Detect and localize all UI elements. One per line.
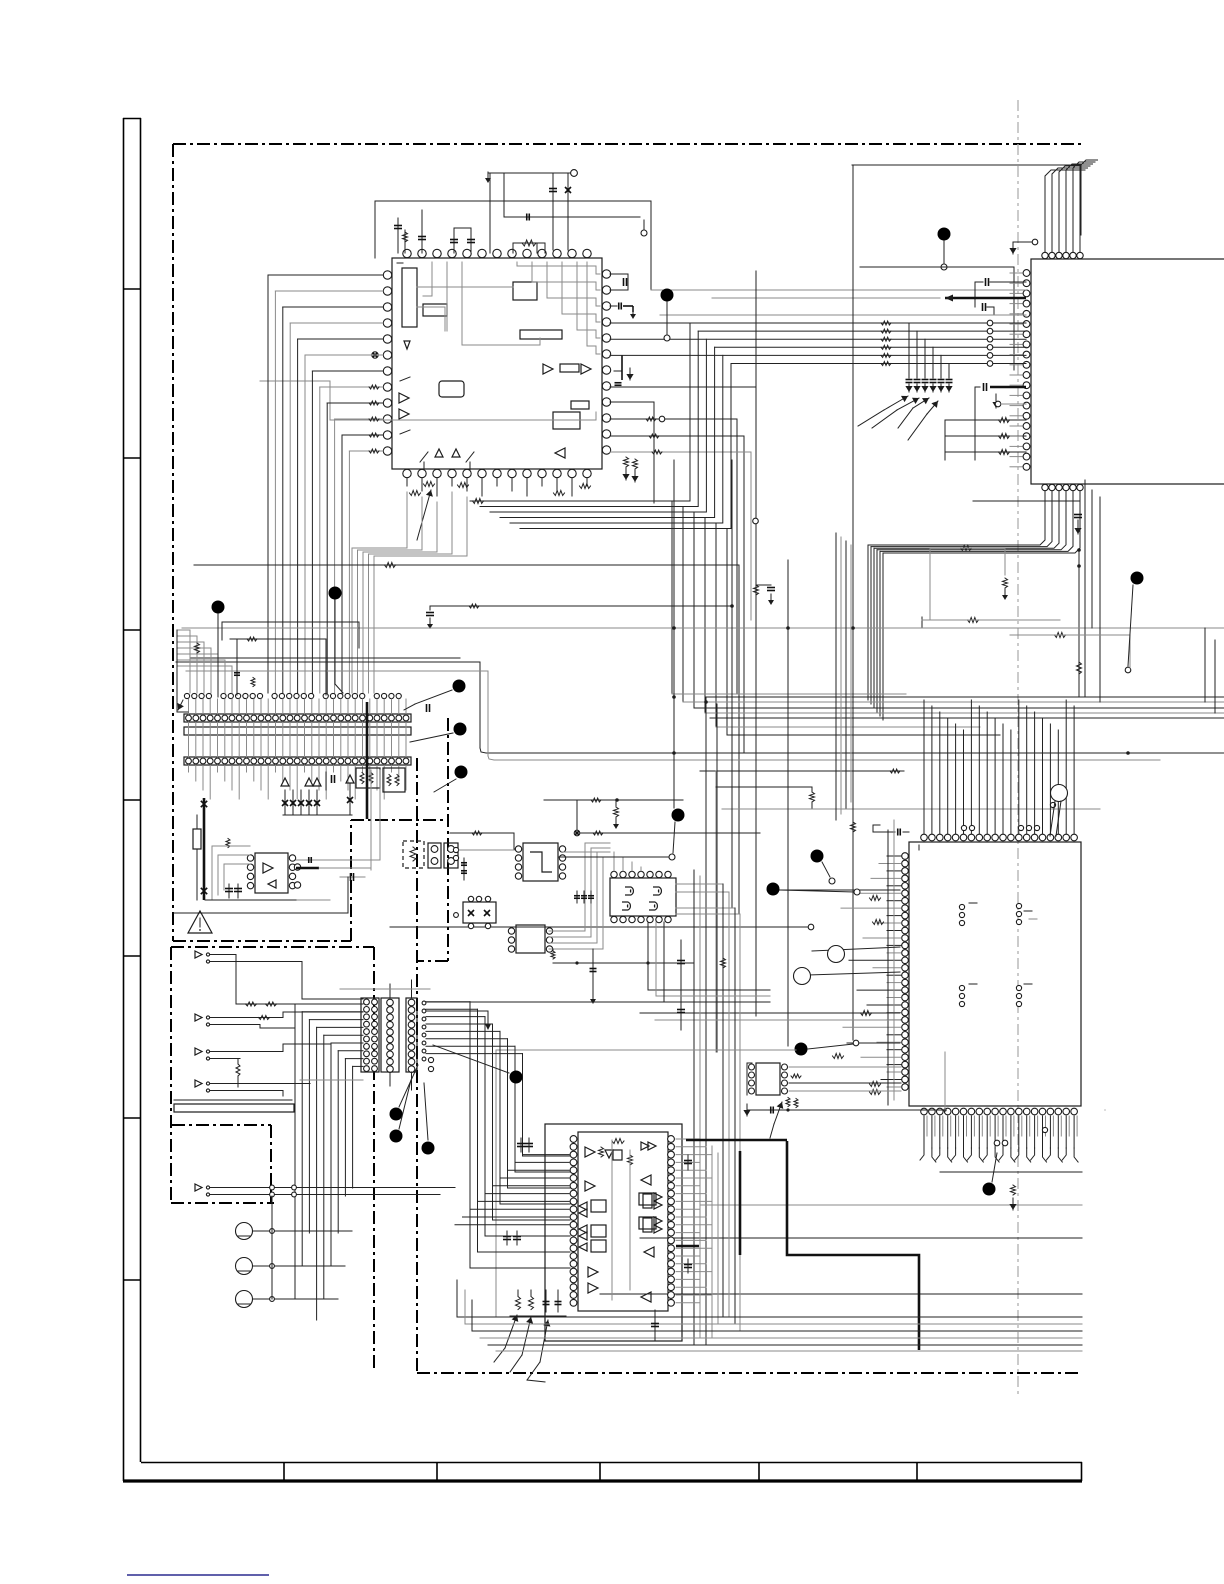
leader arrows to caps — [884, 396, 908, 410]
input 2 wires — [216, 1017, 283, 1019]
capacitor on x593 — [590, 968, 597, 970]
wire hor 1080 — [300, 1079, 363, 1081]
U3 left pins — [902, 853, 909, 860]
U5 surrounding wires — [212, 845, 250, 847]
revision link underline — [127, 1574, 269, 1576]
wire to circle 673-857 — [558, 856, 669, 858]
capacitor C110 — [623, 278, 625, 286]
wires U1 top components — [488, 172, 572, 174]
CN3 arrow wire y1011 — [426, 1010, 488, 1012]
black dot callout 1 — [938, 228, 951, 241]
U1 left pins — [383, 271, 391, 279]
DSP U3 IC body — [909, 842, 1081, 1106]
U3 top pins — [921, 834, 928, 841]
connector CN2 pins — [186, 758, 192, 764]
connector CN1 body — [184, 714, 411, 722]
capacitor C201 — [1074, 514, 1082, 516]
wire y800 with resistors — [544, 799, 683, 801]
white circle callout A — [1051, 785, 1068, 802]
black dot callout 15b — [422, 1142, 435, 1155]
block boundary dash-dot frame — [173, 143, 1082, 145]
black dot callout 8 — [672, 809, 685, 822]
bold cap wire U2 — [990, 386, 1026, 389]
capacitor C310 — [680, 940, 682, 1030]
resistors under U1 — [424, 482, 435, 487]
U6b left pins — [508, 928, 514, 934]
black dot callout 11 — [795, 1043, 808, 1056]
U1 bottom elbow bus to right — [470, 500, 690, 502]
dashed box component X1 — [403, 841, 424, 868]
IC U6b body — [516, 925, 545, 953]
wire horizontals left — [176, 630, 178, 712]
U10 wires — [746, 1063, 748, 1095]
connector small J11 — [444, 843, 458, 868]
op-amp U5 body — [255, 853, 288, 893]
bold wire into U10 area — [686, 1139, 787, 1142]
U2 bottom pins — [1042, 484, 1048, 490]
CN3 long wire y1003 — [426, 1001, 770, 1003]
U2 right pin stubs short — [1010, 272, 1022, 274]
bold routing wire — [787, 1141, 919, 1350]
wire to dot 11 — [496, 1049, 796, 1051]
U5 right pins — [289, 855, 295, 861]
connector mid body — [184, 727, 411, 735]
resistor pack right of diodes — [356, 768, 380, 788]
U10 arrow annotation — [774, 1102, 782, 1124]
capacitor C103 — [453, 228, 455, 253]
phono jack J1 — [236, 1223, 253, 1240]
input 5 wires y1188 — [216, 1187, 455, 1189]
black dot callout 16 — [983, 1183, 996, 1196]
resistor R21 R22 — [236, 1003, 363, 1005]
audio processor U4 outer boundary — [545, 1124, 682, 1341]
U7 top pins — [611, 871, 617, 877]
U7 bottom drop verticals — [647, 922, 649, 990]
black dot callout 14 — [390, 1108, 403, 1121]
ground arrow near U1 right — [632, 306, 634, 312]
U6 left pins — [515, 846, 521, 852]
bold wire 2 — [739, 1151, 742, 1255]
microcontroller U2 IC body — [1031, 259, 1224, 484]
feeder left elbows — [177, 629, 190, 631]
white circle callout B — [828, 946, 845, 963]
dual header CN3 left body — [361, 998, 379, 1072]
connector CN2 body — [184, 757, 411, 765]
resistor bus with bypass caps — [610, 322, 1026, 324]
U4 internal ops — [585, 1147, 595, 1157]
capacitor C202 — [974, 282, 976, 307]
black dot callout 4 — [329, 587, 342, 600]
capacitors row mid — [576, 891, 578, 903]
capacitors near U4 top-left — [517, 1143, 525, 1145]
IC U6 body — [523, 843, 558, 881]
phono jack J2 — [236, 1258, 253, 1275]
U6 right pins — [559, 846, 565, 852]
wire y622 — [222, 621, 359, 623]
black dot callout 2 — [661, 289, 674, 302]
capacitor C301 — [463, 858, 465, 880]
input 4 wires — [216, 1083, 310, 1085]
wire y963 — [553, 962, 694, 964]
wire verticals mid — [673, 460, 675, 808]
bottom long bus — [457, 1316, 1082, 1318]
bold arrow wire — [945, 297, 1026, 300]
capacitors under U5 — [228, 884, 230, 898]
bold vertical with diodes — [203, 798, 206, 900]
ground mid — [592, 949, 594, 994]
capacitor C105 — [526, 214, 528, 221]
resistor wires U1 right low — [610, 418, 737, 420]
wires U1 bottom pins — [406, 478, 408, 486]
left block frame line — [174, 912, 348, 914]
U5 internal — [263, 863, 273, 873]
U3 top feeder verticals — [923, 700, 925, 834]
U7 surrounding loop wires — [584, 843, 586, 931]
U3 bottom pin hooks — [923, 1116, 925, 1148]
wire net U2 pin rows — [944, 266, 1014, 268]
U4 left feeder wires — [523, 1154, 570, 1156]
U10 left pins — [749, 1064, 755, 1070]
U3 left side wires — [887, 855, 901, 857]
capacitor C401 — [684, 1160, 692, 1162]
arrow annotation under U1 — [417, 490, 431, 540]
capacitor C203 — [982, 303, 984, 311]
U6b right pins — [546, 928, 552, 934]
phono jack J3 — [236, 1291, 253, 1308]
black dot callout 12 — [1131, 572, 1144, 585]
U2 lower left resistors — [945, 419, 1026, 421]
U5 left pins — [247, 855, 253, 861]
fold line dash-dot gray — [1017, 100, 1019, 1395]
U4 right verticals — [711, 1146, 713, 1338]
lower-left dash-dot block — [171, 946, 374, 948]
CN3 wire end circles — [422, 1001, 426, 1005]
junction dots bus — [672, 626, 676, 630]
U1 internal routing — [517, 262, 600, 274]
black dot callout 13 — [510, 1071, 523, 1084]
page border ruler left — [123, 118, 125, 1481]
IC U7 quad gate body — [610, 878, 676, 916]
capacitor C101 — [397, 218, 399, 253]
filter FL1 — [463, 902, 496, 923]
wire y833 with resistor — [577, 832, 760, 834]
diode row below CN2 — [284, 790, 286, 815]
header CN3 middle body — [381, 998, 399, 1072]
black dot callout 5 — [453, 680, 466, 693]
capacitors near U4 mid-left — [503, 1236, 511, 1238]
black dot callout 9 — [811, 850, 824, 863]
resistor x228 — [226, 839, 230, 848]
U7 bottom pins — [611, 916, 617, 922]
wires U10 to U3 — [789, 1066, 901, 1068]
U10 ground wire — [747, 1109, 945, 1111]
black dot callout 15 — [390, 1130, 403, 1143]
header CN3 right body — [406, 998, 417, 1072]
U4 left pins — [570, 1136, 577, 1143]
connector CN1 pins — [186, 715, 192, 721]
U1 right pins — [602, 270, 610, 278]
capacitor C102 — [421, 210, 423, 253]
resistor on x253 — [251, 678, 255, 687]
bold cap tee — [614, 370, 622, 372]
capacitor C402 — [684, 1264, 692, 1266]
black dot callout 7 — [455, 766, 468, 779]
resistor wire y639 — [230, 638, 326, 640]
op-amp U1 main IC body — [392, 258, 602, 469]
U1 internal blocks — [402, 268, 417, 327]
U2 bottom bus falling — [868, 491, 1045, 545]
U1 pin1 marker — [397, 262, 403, 264]
IC U10 body — [756, 1063, 780, 1095]
CN3 right pins — [408, 999, 415, 1006]
bottom title strip — [141, 1462, 1082, 1464]
bold wire left block — [366, 702, 369, 819]
small circles above U3 pins — [961, 825, 966, 830]
U4 right stubs — [676, 1138, 700, 1140]
wire y387 to x756 — [610, 386, 756, 388]
wires U1 left to connector bus — [268, 274, 383, 276]
wires U7 to right — [676, 883, 723, 885]
U3 interior pads — [959, 904, 964, 909]
input 3 wires — [216, 1051, 283, 1053]
input connectors lower-left box — [195, 951, 202, 958]
resistor R104 — [513, 242, 545, 244]
vertical resistors with arrows — [624, 457, 629, 467]
U1 top pins — [403, 249, 411, 257]
leader circles near CN3 — [428, 1057, 433, 1062]
warning triangle symbol — [188, 911, 212, 933]
U3 bottom bus horizontals — [940, 1171, 1082, 1173]
long rect lower left — [174, 1104, 294, 1112]
connector pre-row small pins — [184, 693, 189, 698]
wire x1079 down to bus — [1078, 550, 1080, 697]
CN3 middle pins — [387, 999, 394, 1006]
U4 right pins — [668, 1136, 675, 1143]
U2 left pins — [1023, 270, 1030, 277]
wires U1 right pins — [610, 273, 628, 275]
jack junction circles — [270, 1229, 275, 1234]
comb wires CN1-CN2 — [188, 699, 190, 714]
wire bus horizontal mid — [194, 564, 739, 566]
capacitor C403 — [654, 1310, 656, 1340]
white circle callout C — [794, 968, 811, 985]
resistor cluster under U4 — [516, 1297, 521, 1310]
U4 body — [578, 1132, 668, 1311]
CN3 right wires to U4 — [426, 1001, 470, 1003]
black dot callout 6 — [454, 723, 467, 736]
CN3 left pins — [364, 999, 370, 1005]
connector small J10 — [428, 843, 441, 868]
U7 internal gates — [625, 887, 633, 895]
U10 right pins — [782, 1064, 788, 1070]
U3 bottom pins — [921, 1108, 928, 1115]
U2 top ground — [1013, 241, 1032, 243]
U2 top bus rising — [1045, 170, 1085, 252]
arrow into CN1 — [178, 700, 183, 710]
U10 resistor — [791, 1074, 801, 1078]
resistor near fold — [961, 546, 972, 551]
circled-x junction — [372, 352, 378, 358]
wire bundle U2 to U3 — [835, 533, 837, 820]
capacitor top-left of U3 — [873, 831, 895, 833]
wire into U6 pin1 — [450, 833, 521, 849]
resistor on x197 — [195, 643, 200, 653]
bottom dash-dot border — [417, 1372, 1082, 1374]
resistor R301 box — [193, 829, 201, 849]
black dot callout 10 — [767, 883, 780, 896]
solid corner line top right — [852, 164, 1081, 166]
U2 top pins — [1042, 252, 1048, 258]
input 1 wires — [216, 954, 236, 956]
top line above CN3 — [340, 988, 430, 990]
U1 bottom pins — [403, 469, 411, 477]
black dot callout 3 — [212, 601, 225, 614]
CN3 vertical drops to jacks — [294, 1004, 296, 1299]
